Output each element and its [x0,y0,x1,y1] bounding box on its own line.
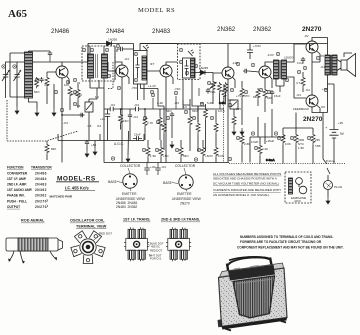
svg-text:MATCHED PAIR: MATCHED PAIR [50,195,73,199]
label C16 [91,143,96,147]
resistor R15b [263,88,267,112]
label current [326,159,335,163]
driver transformer T2 [274,60,287,79]
signal bus row [104,108,224,110]
svg-text:2N270: 2N270 [303,116,323,123]
svg-text:AN AVOMETER MODEL 8. (NO SIGNA: AN AVOMETER MODEL 8. (NO SIGNAL) [213,193,269,197]
IF transformer IFT1 [134,45,149,84]
resistor R20 mid [301,72,305,92]
svg-text:BASE: BASE [163,181,173,185]
node t14 [134,52,137,55]
node t11 [60,108,63,111]
node t57 [274,132,277,135]
IF transformer view 2 [166,227,191,261]
ground G2 [35,109,39,116]
capacitor C17 between pinouts [144,163,149,176]
node t22 [230,88,233,91]
svg-text:+50: +50 [91,143,96,147]
svg-text:455 KC: 455 KC [151,245,160,249]
node t34 [156,120,159,123]
tuning capacitor C1A [2,69,10,88]
capacitor C8 series [136,107,139,111]
capacitor C5 [79,113,85,117]
top face light strip [220,263,284,277]
title MODEL RS [138,7,175,14]
node t47 [290,136,293,139]
resistor R17 [204,104,208,151]
svg-text:+5OO: +5OO [205,154,214,158]
svg-text:2N362: 2N362 [35,188,47,192]
svg-text:INDICATED AND CHASSIS POSITIVE: INDICATED AND CHASSIS POSITIVE WITH A [213,177,278,181]
svg-text:05: 05 [77,104,81,108]
label D1 [108,38,117,42]
ground G4 [85,150,89,157]
node t54 [228,157,231,160]
node t20 [194,64,197,67]
node t41 [155,148,158,151]
wire Q3 leads [147,62,177,163]
svg-text:CONVERTER: CONVERTER [7,171,28,175]
ground G13 [232,128,236,135]
ground G6 [326,197,330,204]
label terminal view [76,224,107,228]
svg-text:VOL: VOL [210,90,216,94]
label 2N270 top [302,26,322,33]
rod aerial drawing [6,238,63,264]
svg-text:-O1: -O1 [320,65,325,69]
svg-text:RED DOT: RED DOT [150,249,162,253]
capacitor C18 [155,163,160,176]
node t36 [184,110,187,113]
svg-text:-74O: -74O [174,87,181,91]
svg-text:IFT: IFT [150,62,155,66]
svg-text:1N295: 1N295 [108,38,117,42]
label R13c [219,101,225,105]
svg-text:10K: 10K [64,83,69,87]
capacitor C13 coupling [243,69,249,73]
svg-text:-1OV: -1OV [267,53,274,57]
capacitor C12 [247,44,253,60]
svg-text:-O4: -O4 [134,103,139,107]
svg-text:ROD AERIAL: ROD AERIAL [21,219,45,223]
svg-text:62K: 62K [267,96,272,100]
svg-text:56O: 56O [192,109,198,113]
svg-text:1O-K: 1O-K [218,109,225,113]
svg-text:EMITTER: EMITTER [122,192,137,196]
svg-text:I.F. 455 Kc/s: I.F. 455 Kc/s [65,186,89,191]
resistor R3 [76,84,80,108]
earphone jack dashed box [285,172,311,203]
node t18 [179,60,182,63]
wire Q5 bottoms [258,109,272,137]
svg-text:4.7: 4.7 [296,81,301,85]
labels between IF views [149,242,164,261]
leader lines IF views [148,244,151,257]
wire battery down [333,146,335,164]
svg-text:6K: 6K [200,101,204,105]
svg-text:8·0mA: 8·0mA [326,159,335,163]
ground G8 [170,141,174,148]
radio photo [218,257,288,331]
right lower wire / switch [323,128,330,180]
extra voltage labels right [296,34,343,125]
svg-text:+7V: +7V [236,94,241,98]
svg-text:-9V: -9V [304,34,309,38]
label 2N270 lower [303,116,323,123]
transistor Q6 output top [306,41,318,53]
node t7 [73,102,76,105]
dotted vertical right of mids [223,96,225,162]
ground G3 [52,109,56,116]
svg-text:MODEL RS: MODEL RS [138,7,175,14]
resistor R12 [218,82,222,104]
label 2nd 3rd IF trans [161,218,200,222]
svg-text:COLLECTOR: COLLECTOR [120,164,141,168]
svg-text:N33: N33 [71,92,77,96]
transistor Q2 1st IF [116,65,128,77]
svg-text:-76V: -76V [131,86,137,90]
svg-text:2N362: 2N362 [253,26,272,33]
note text voltages [213,172,281,197]
svg-text:2N486: 2N486 [35,171,47,175]
wire aerial bottoms [6,84,55,109]
capacitor C2 [48,51,52,62]
label 2N362 second [253,26,272,33]
node t38 [200,102,203,105]
resistor R2 [68,86,72,110]
svg-text:1ST I.F. AMP.: 1ST I.F. AMP. [7,177,27,181]
wire output stage [312,38,328,113]
wire Q4 leads [213,44,235,99]
svg-text:OUTPUT: OUTPUT [7,205,20,209]
top dark control band [228,265,275,281]
wire row1 links [108,62,113,89]
svg-text:2-7K: 2-7K [147,121,153,125]
node t2 [35,78,38,81]
node t24 [251,63,254,66]
capacitor C15 [133,133,142,141]
node t9 [90,48,93,51]
svg-text:COMPONENT REPLACEMENT AND MAY: COMPONENT REPLACEMENT AND MAY NOT BE FOU… [237,246,344,250]
svg-text:1-5K: 1-5K [298,146,304,150]
svg-text:1-5K: 1-5K [150,154,156,158]
label rod aerial [21,219,45,223]
resistor R15 [188,105,192,151]
svg-text:2N483: 2N483 [35,183,47,187]
node t19 [185,71,188,74]
tiny circled terminal numbers [2,48,328,151]
svg-text:MODEL-RS: MODEL-RS [57,175,96,182]
trimmer C11b [228,98,238,163]
node t23 [236,62,239,65]
label 2N484 [106,28,125,35]
speaker LS [337,53,356,77]
node t1 [2,65,5,68]
capacitor C7 series [110,107,113,111]
label 2N483 [152,28,171,35]
IF transformer IFT2 dashed box [178,44,201,101]
node t32 [324,88,327,91]
svg-text:5-6K: 5-6K [207,101,213,105]
svg-text:RED DOT: RED DOT [99,232,112,236]
function table [7,166,73,209]
svg-text:A.G.C.: A.G.C. [114,142,124,146]
node t51 [151,93,154,96]
svg-text:FOR O.S.: FOR O.S. [150,257,162,261]
resistor R1b [35,77,39,88]
ground G1 [15,107,19,114]
label current2 [266,158,275,162]
transistor Q4 audio [222,67,234,79]
switch S1 plug [324,180,333,197]
transistor Q5 driver [259,66,271,78]
tuning capacitor C1B [14,69,22,88]
resistor R22 [159,140,163,163]
model title [56,175,99,190]
node t53 [194,158,197,161]
svg-text:68O: 68O [253,95,259,99]
svg-text:2N484: 2N484 [35,177,47,181]
svg-text:2N270: 2N270 [180,202,190,206]
svg-text:15uF: 15uF [134,133,141,137]
node t30 [303,66,306,69]
mid AGC bus [58,134,144,141]
svg-text:82K: 82K [51,147,56,151]
svg-text:2-2K: 2-2K [157,101,163,105]
svg-text:NUMBERS ASSIGNED TO TERMINALS: NUMBERS ASSIGNED TO TERMINALS OF COILS A… [240,235,333,239]
wire mid links [158,88,206,122]
svg-text:CURRENTS INDICATED ARE MEASURE: CURRENTS INDICATED ARE MEASURED WITH [213,188,281,192]
transistor Q1 converter [56,66,68,78]
label oscillator coil [70,219,105,223]
node t13 [117,86,120,89]
svg-text:2N484: 2N484 [106,28,125,35]
node t40 [142,148,145,151]
node t44 [236,136,239,139]
svg-text:COLLECTOR: COLLECTOR [175,164,196,168]
capacitor C6 top [117,44,134,53]
label D2 [199,66,208,70]
node dot j2 [120,108,122,110]
transistor Q3 2nd IF [160,65,172,77]
svg-text:1ST I.F. TRANS.: 1ST I.F. TRANS. [123,218,150,222]
svg-text:2-6K: 2-6K [244,142,250,146]
node t37 [192,116,195,119]
diode D2 1N295 [195,70,213,74]
capacitor C16 [85,140,89,150]
label AGC [114,142,124,146]
trimmer capacitor C4 [85,99,93,141]
node t26 [267,90,270,93]
wire Q5 leads [249,62,274,88]
label C18 [161,165,166,169]
svg-text:9-6mA: 9-6mA [266,158,275,162]
label feedback [293,107,309,111]
svg-text:2N486: 2N486 [51,28,70,35]
svg-text:PLUG: PLUG [334,185,343,189]
svg-text:1N295: 1N295 [199,66,208,70]
svg-text:TRANSISTOR: TRANSISTOR [31,166,52,170]
junction node J1 [61,114,84,162]
svg-text:-O4: -O4 [124,57,129,61]
node t29 [297,70,300,73]
label R20 [296,81,301,85]
svg-text:04: 04 [77,81,81,85]
svg-text:56O: 56O [183,154,189,158]
svg-text:DC VACUUM TUBE VOLTMETER (NO S: DC VACUUM TUBE VOLTMETER (NO SIGNAL) [213,181,279,185]
node n6 [116,44,119,47]
top rail left [87,44,89,63]
svg-text:56O: 56O [34,90,40,94]
svg-text:2N270: 2N270 [35,199,47,203]
svg-text:-O4: -O4 [110,103,115,107]
wire lower mid bus [250,137,285,163]
node t35 [166,116,169,119]
svg-text:O4: O4 [97,124,101,128]
node t16 [150,90,153,93]
title A65 [8,8,27,20]
node t52 [174,91,177,94]
capacitor C2b [39,77,43,83]
node t15 [134,78,137,81]
svg-text:470: 470 [44,83,49,87]
base [222,318,288,330]
battery B1 [330,126,339,146]
svg-text:1OK: 1OK [218,154,224,158]
resistor R16 [196,106,200,151]
node t43 [197,148,200,151]
wire Q1 leads [47,62,88,115]
resistor R24 [201,140,205,163]
svg-text:-O4: -O4 [133,115,138,119]
resistor R1 [45,72,49,104]
svg-text:A65: A65 [8,8,27,20]
svg-text:1OuF: 1OuF [297,61,304,65]
svg-text:1ST AUDIO AMP.: 1ST AUDIO AMP. [7,188,33,192]
wire IFT1 bottom [138,84,159,100]
svg-text:2N270: 2N270 [302,26,322,33]
svg-text:TERMINAL VIEW: TERMINAL VIEW [76,224,107,228]
chassis dotted rail [229,163,345,165]
resistor R21 second row [146,140,150,163]
resistor R14b [240,81,244,125]
thermistor R29 [281,133,285,164]
svg-text:FUNCTION: FUNCTION [7,166,24,170]
svg-text:BASE: BASE [108,180,118,184]
node t42 [175,148,178,151]
wire G7 [127,131,130,155]
svg-text:FEEDBACK: FEEDBACK [293,107,309,111]
svg-text:O5: O5 [320,54,324,58]
wire Q2 leads [108,62,129,163]
svg-text:235: 235 [315,138,320,142]
capacitor C10 [206,88,210,94]
wire osc top rails [88,44,115,81]
svg-text:PHASE INV.: PHASE INV. [7,194,25,198]
node t17 [179,48,182,51]
svg-text:+7OO: +7OO [253,44,262,48]
aerial coil L1 [10,52,33,98]
wire right rail [140,44,334,127]
node t5 [73,78,76,81]
diode D1 1N295 [88,41,134,46]
note text numbers [237,235,344,250]
svg-text:L56OO: L56OO [284,56,294,60]
node t50 [244,90,247,93]
svg-text:O5: O5 [88,124,92,128]
oscillator coil star drawing [71,231,112,264]
svg-text:2N483 2N362: 2N483 2N362 [116,205,137,209]
svg-text:+5O: +5O [163,154,169,158]
label T2 [284,56,294,60]
label battery [325,125,345,136]
svg-text:PUSH - PULL: PUSH - PULL [7,199,27,203]
svg-text:+9V: +9V [338,121,343,125]
svg-text:15uF: 15uF [274,94,281,98]
svg-text:+1-4V: +1-4V [148,84,156,88]
node t31 [316,56,319,59]
output transformer T3 [325,38,337,85]
pinout power transistor [163,164,202,206]
node t48 [307,136,310,139]
svg-text:UNDERSIDE VIEW: UNDERSIDE VIEW [172,197,202,201]
svg-text:2ND & 3RD I.F.TRANS.: 2ND & 3RD I.F.TRANS. [161,218,200,222]
wire IFT1 top [140,44,177,51]
node t55 [111,157,114,160]
resistor R13b [232,115,236,128]
node t4 [66,80,69,83]
capacitor C9 electrolytic [105,109,110,141]
node t8 [82,48,85,51]
svg-text:235: 235 [236,107,241,111]
resistor R25 [240,130,244,163]
node t3 [54,90,57,93]
IF transformer view 1 [124,227,149,261]
svg-text:TAB: TAB [315,144,320,148]
resistor R26 [258,137,262,164]
tiny value labels [44,44,328,158]
node t56 [251,132,254,135]
svg-text:+O4: +O4 [322,87,328,91]
label plug [334,185,343,189]
svg-text:+16: +16 [100,117,105,121]
node t45 [254,146,257,149]
resistor R16b [256,88,260,106]
resistor R9 [158,109,162,140]
svg-text:2N270: 2N270 [35,205,47,209]
svg-text:2N362: 2N362 [217,26,236,33]
wire T2 to Q6/Q7 [276,44,306,98]
node t12 [107,74,110,77]
ground G14 [240,128,244,135]
svg-text:-O4: -O4 [305,88,310,92]
svg-text:ALL VOLTAGES MEASURED BETWEEN: ALL VOLTAGES MEASURED BETWEEN POINTS [213,172,281,176]
resistor R5 [119,109,123,130]
svg-text:-O4: -O4 [63,121,68,125]
volume control R11 [210,73,217,105]
svg-text:2N483: 2N483 [152,28,171,35]
svg-text:2ND I.F. AMP.: 2ND I.F. AMP. [7,183,27,187]
svg-text:1OK: 1OK [285,142,291,146]
svg-text:1O2K: 1O2K [251,140,258,144]
capacitor C9b [128,109,132,141]
ground G5 [93,148,97,155]
label R10 [51,147,56,151]
capacitor C19 [301,57,305,63]
resistor R13c [222,84,226,101]
wire G5 [94,141,96,149]
resistor R31 [311,133,315,164]
